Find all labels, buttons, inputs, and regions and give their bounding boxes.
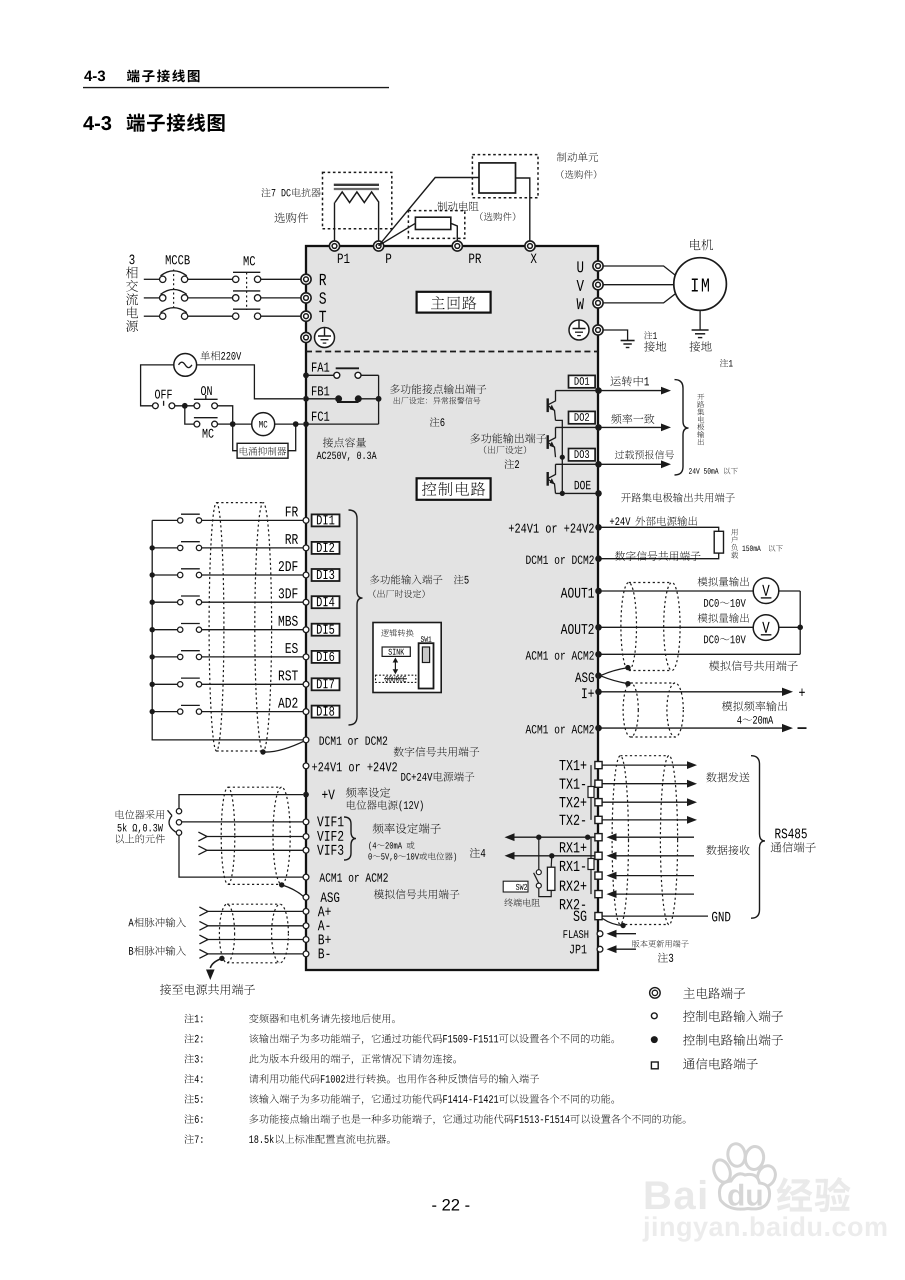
wire switch to DI4: [202, 601, 303, 603]
wire DO1 output: [556, 387, 602, 394]
terminal P: [374, 241, 392, 263]
terminal DI1: [303, 514, 339, 526]
label （选购件） braking resistor: [480, 212, 515, 221]
wire branch to MC aux contact: [185, 406, 194, 424]
wire source left to OFF: [141, 365, 174, 406]
label 用户负载 vertical: [731, 529, 738, 559]
terminal DI8: [303, 706, 339, 718]
wire +24V to load resistor: [602, 527, 719, 531]
wire reactor to P1: [334, 203, 336, 242]
label RS485: [775, 828, 806, 838]
transistor Q1: [548, 391, 556, 421]
label 3相交流电源 vertical: [126, 255, 138, 332]
relay contact FA1 NO: [306, 368, 379, 378]
wire switch to DI8: [202, 711, 303, 713]
label 数据发送: [706, 772, 749, 782]
label 5kΩ,0.3W: [118, 823, 163, 833]
VIF shield drain to ASG: [279, 882, 304, 896]
label 注7 DC电抗器: [261, 188, 320, 197]
terminal VIF1: [182, 817, 344, 827]
MC contact pole 3: [233, 309, 261, 319]
wire bus to switch RST: [152, 683, 177, 685]
switch ES: [178, 651, 202, 660]
wire voltmeter V1 to common bus: [779, 591, 801, 654]
label control circuit 控制电路: [417, 478, 491, 500]
wire +V to potentiometer: [179, 795, 303, 809]
junction node bus DI3: [150, 572, 155, 577]
terminal RX2+: [560, 872, 602, 891]
arrow DO3 overload warning: [601, 450, 674, 468]
label 多功能接点输出端子: [390, 384, 486, 394]
wire bus to switch 2DF: [152, 574, 177, 576]
wire ON to node: [218, 406, 233, 424]
note 注7: [184, 1134, 389, 1143]
junction node after OFF: [182, 403, 188, 409]
DO1 terminal box: [569, 375, 596, 387]
arrow SINK SOURCE double: [393, 658, 399, 675]
label （选购件） braking unit: [561, 170, 596, 179]
legend symbol control input terminal: [651, 1013, 657, 1019]
terminating resistor: [547, 856, 555, 891]
wire node to coil: [233, 423, 252, 425]
label 注1 motor ground: [720, 359, 733, 367]
label signal RST: [279, 670, 298, 680]
RX1+ internal line with arrow: [505, 833, 595, 841]
label 4～20mA: [737, 716, 773, 724]
label 制动单元: [557, 152, 598, 162]
terminal PR: [452, 241, 481, 263]
arrow TX2+ data send: [603, 798, 698, 806]
wire reactor to P: [378, 203, 380, 242]
label 出厂设定：异常报警信号: [394, 397, 481, 404]
braking resistor body: [415, 217, 450, 229]
wire bus to switch RR: [152, 547, 177, 549]
shielded cable pulse inputs: [219, 904, 288, 963]
note 注1: [184, 1014, 394, 1023]
transistor Q3: [548, 464, 556, 493]
label 注6: [430, 417, 445, 427]
wire bus to switch MBS: [152, 629, 177, 631]
legend label 主电路端子: [683, 987, 745, 998]
shielded cable I+: [623, 683, 683, 737]
SOURCE dotted box: [376, 675, 416, 682]
switch RR: [178, 542, 202, 551]
arrow DO2 frequency agree: [601, 414, 671, 432]
terminal T: [301, 311, 326, 322]
brace frequency setting terminals: [344, 817, 356, 860]
wire bus to switch 3DF: [152, 601, 177, 603]
terminal RX1-: [560, 852, 602, 871]
terminal JP1: [570, 945, 603, 954]
label +24V 外部电源输出: [610, 516, 697, 526]
header rule: [83, 87, 389, 89]
wire bus to switch FR: [152, 519, 177, 521]
terminal DI5: [303, 624, 339, 636]
legend label 控制电路输出端子: [683, 1034, 783, 1046]
terminal PE right: [593, 325, 603, 335]
label 多功能输入端子 注5: [370, 575, 469, 585]
RS485 shield drain from SG: [603, 919, 626, 929]
watermark du text: [728, 1184, 761, 1206]
label 数据接收: [706, 845, 749, 855]
switch AD2: [178, 705, 202, 714]
wire switch to DI6: [202, 656, 303, 658]
label main circuit 主回路: [417, 292, 491, 313]
wire braking unit to X: [516, 178, 530, 242]
transistor Q2: [548, 427, 556, 457]
arrow DO1 running signal: [601, 376, 671, 395]
switch 3DF: [178, 596, 202, 605]
label 注4: [470, 848, 486, 858]
terminal FA1: [303, 363, 329, 379]
SW2 terminating switch: [534, 837, 552, 896]
pulse shield to power common arrow: [206, 956, 225, 980]
arrow RX1- data receive: [607, 852, 695, 860]
wire P to braking unit: [379, 178, 479, 246]
label DC+24V电源端子: [401, 772, 474, 782]
terminal P1: [329, 241, 349, 263]
junction node bus DI5: [150, 627, 155, 632]
terminal A+: [199, 906, 330, 916]
braking unit box: [479, 163, 516, 193]
reactor L1 winding: [335, 192, 379, 203]
terminal B-: [199, 949, 329, 959]
label 终端电阻: [504, 898, 539, 906]
label 注2: [504, 459, 519, 469]
terminal FC1: [303, 412, 329, 427]
RX internal bus: [588, 837, 594, 894]
terminal TX2+: [559, 797, 602, 807]
arrow TX1- data send: [603, 780, 698, 788]
junction node bus DI4: [150, 600, 155, 605]
label 多功能输出端子: [470, 433, 546, 443]
label 模拟量输出 1: [698, 577, 749, 587]
label signal MBS: [279, 616, 298, 626]
terminal DCM right: [526, 555, 602, 564]
label 接地 motor: [689, 341, 711, 352]
label signal AD2: [278, 698, 297, 708]
terminal DCM1: [303, 736, 387, 745]
wire phase T input: [144, 315, 301, 317]
DC reactor option dotted box: [323, 172, 392, 228]
junction node MC coil left: [218, 421, 236, 427]
wire voltmeter V2 to common bus: [779, 625, 804, 631]
SW1 slide switch: [419, 643, 434, 688]
page heading 4-3 端子接线图: [83, 113, 224, 131]
arrow I+ output: [602, 688, 805, 696]
wire motor to ground: [699, 310, 701, 329]
page number: [432, 1199, 469, 1211]
label （出厂时设定）: [373, 590, 424, 598]
legend label 通信电路端子: [683, 1058, 758, 1070]
relay common bus wire: [306, 375, 379, 424]
digital input common bus wire: [152, 520, 303, 740]
terminal U: [577, 261, 603, 272]
wire switch to DI1: [202, 519, 303, 521]
wire node to suppressor: [233, 424, 237, 451]
brace multifunction inputs: [349, 510, 363, 725]
main/control circuit separator dashed line: [306, 351, 598, 353]
label 模拟信号共用端子 right: [709, 661, 798, 671]
inverter main block: [306, 246, 598, 970]
arrow TX2- data send: [603, 816, 698, 824]
terminal +24V1: [303, 762, 397, 771]
terminal RX2-: [560, 891, 602, 910]
label 数字信号共用端子 right: [615, 551, 701, 561]
terminal FLASH: [564, 930, 603, 938]
label signal 2DF: [279, 561, 298, 571]
AC source 单相220V: [174, 354, 197, 377]
MC contact pole 2: [233, 291, 261, 301]
emitter common bus: [556, 420, 565, 496]
MC contact pole 1: [233, 272, 261, 282]
wire W to motor: [603, 293, 677, 303]
label signal ES: [286, 643, 298, 653]
braking resistor option dotted box: [408, 211, 464, 239]
terminal DI6: [303, 651, 339, 663]
terminal S: [301, 292, 326, 304]
label 接地 left: [644, 341, 666, 352]
arrow JP1: [607, 945, 637, 953]
watermark paw: [711, 1143, 779, 1210]
label 单相220V: [200, 351, 241, 360]
wire DO3 output: [556, 461, 602, 468]
label 开路集电极输出 vertical: [697, 394, 704, 445]
SW2 label box: [503, 881, 528, 892]
terminal AOUT2: [561, 624, 602, 634]
label signal FR: [286, 507, 298, 517]
DO2 terminal box: [569, 411, 596, 423]
terminal RX1+: [560, 834, 602, 853]
label 接点容量: [323, 437, 366, 447]
braking unit option dotted box: [472, 155, 538, 198]
label open collector common 开路集电极输出共用端子: [621, 493, 735, 503]
label 24V 50mA 以下: [689, 468, 738, 475]
watermark 经验: [777, 1177, 851, 1212]
MCCB pole 2: [160, 289, 188, 301]
MC auxiliary contact: [194, 418, 218, 438]
ground symbol in block left: [315, 328, 335, 348]
wire bus to switch AD2: [152, 711, 177, 713]
ground symbol in block right: [569, 320, 589, 340]
label 0～5V,0～10V或电位器): [368, 852, 456, 861]
MCCB pole 3: [160, 308, 188, 320]
label 注3: [658, 953, 673, 963]
page header small title: [84, 69, 199, 82]
junction node bus DI7: [150, 682, 155, 687]
SW1 logic selector box: [373, 623, 441, 693]
switch MBS: [178, 624, 202, 633]
terminal +24V right: [509, 524, 602, 533]
shield drain to DCM1: [260, 740, 306, 755]
ASG to I+ shield drain: [602, 676, 631, 686]
potentiometer: [168, 809, 182, 836]
terminal AOUT1: [561, 588, 602, 598]
arrow RX2+ data receive: [607, 872, 695, 880]
junction node bus DI6: [150, 654, 155, 659]
switch FR: [178, 514, 202, 523]
label 电位器采用: [116, 810, 165, 819]
label 逻辑转换: [381, 629, 413, 637]
terminal A-: [199, 920, 329, 930]
label B相脉冲输入: [129, 946, 186, 956]
TX internal bus: [588, 765, 594, 820]
brace open collector outputs: [675, 380, 689, 475]
MC linkage dotted line: [246, 273, 248, 311]
label MC contactor: [244, 256, 255, 265]
wire pot low to ACM1: [179, 836, 303, 878]
DOE terminal: [556, 481, 602, 497]
terminal SG: [573, 911, 602, 921]
wire bus to switch ES: [152, 656, 177, 658]
wire load resistor to DCM: [602, 553, 719, 559]
label 版本更新用端子: [632, 940, 689, 948]
terminal R: [301, 274, 326, 285]
MC coil: [252, 413, 275, 436]
terminal X: [525, 241, 537, 263]
wire switch to DI3: [202, 574, 303, 576]
label A相脉冲输入: [128, 917, 186, 927]
wire AOUT1 to voltmeter: [602, 590, 754, 592]
wire switch to DI2: [202, 547, 303, 549]
terminal I+: [582, 688, 602, 698]
label SW1: [421, 636, 432, 642]
voltmeter V2: [753, 615, 779, 641]
terminal V: [577, 280, 604, 291]
AOUT shield drain to ASG: [602, 665, 631, 675]
wire braking resistor to PR: [451, 223, 458, 241]
terminal ACM2 bottom: [526, 725, 602, 734]
terminal FB1: [303, 386, 329, 401]
note 注4: [184, 1074, 538, 1083]
legend label 控制电路输入端子: [683, 1010, 783, 1022]
terminal B+: [199, 935, 330, 945]
note 注3: [184, 1054, 456, 1064]
motor ground symbol: [692, 330, 709, 338]
label (4～20mA 或: [369, 841, 414, 850]
label signal RR: [286, 534, 298, 544]
surge suppressor 电涌抑制器: [237, 443, 288, 458]
label 以上的元件: [116, 834, 165, 843]
label 模拟量输出 2: [698, 613, 749, 623]
pushbutton OFF: [153, 390, 175, 409]
arrow RX2- data receive: [607, 890, 695, 898]
watermark jingyan url: [643, 1216, 887, 1241]
brace RS485 terminals: [751, 756, 765, 919]
junction node bus DI8: [150, 709, 155, 714]
MCCB pole 1: [160, 271, 188, 283]
label 150mA 以下: [742, 545, 782, 552]
wire SG to GND: [603, 915, 709, 917]
arrow RX1+ data receive: [607, 833, 695, 841]
switch RST: [178, 678, 202, 687]
label 频率设定: [346, 787, 390, 798]
arrow TX1+ data send: [603, 761, 698, 769]
wire P to braking resistor: [379, 223, 416, 245]
wire V to motor: [603, 284, 674, 286]
watermark Baidu logo text: [646, 1180, 706, 1209]
load resistor 用户负载: [714, 531, 723, 553]
label 频率设定端子: [373, 823, 441, 834]
legend symbol control output terminal: [651, 1036, 658, 1043]
terminal W: [577, 298, 604, 309]
terminal +V: [303, 790, 335, 800]
MCCB linkage dotted line: [173, 270, 175, 309]
note 注6: [184, 1114, 685, 1125]
RX1- internal line with arrow: [505, 852, 595, 860]
shielded cable digital inputs: [209, 503, 272, 751]
wire ACM common: [602, 653, 801, 655]
arrow ACM2 output: [602, 724, 807, 732]
wire coil to FC1: [275, 421, 303, 427]
terminal TX2-: [559, 815, 602, 825]
wire switch to DI5: [202, 629, 303, 631]
pushbutton ON: [194, 386, 218, 409]
arrow FLASH: [607, 930, 637, 938]
label 注1 left ground: [644, 331, 657, 339]
label AC250V 0.3A: [317, 452, 377, 461]
wire AOUT2 to voltmeter: [602, 626, 754, 628]
shielded cable RS485: [612, 756, 678, 925]
label 通信端子: [771, 842, 816, 853]
terminal DI4: [303, 596, 339, 608]
terminal DI7: [303, 678, 339, 690]
terminal TX1+: [559, 760, 602, 770]
label GND: [712, 912, 730, 922]
terminal TX1-: [559, 779, 602, 789]
wire source right to FB1: [197, 365, 303, 399]
legend symbol communication terminal: [651, 1062, 658, 1069]
label signal 3DF: [279, 588, 298, 598]
label 选购件: [274, 212, 308, 222]
label 电机: [690, 239, 713, 250]
label 模拟信号共用端子 left: [374, 889, 460, 899]
terminal PE left: [301, 332, 311, 342]
wire DO2 output: [556, 424, 602, 431]
wire suppressor to FC1 node: [288, 424, 296, 451]
terminal ASG: [303, 892, 339, 902]
terminal DI2: [303, 542, 339, 554]
label （出厂设定）: [484, 446, 526, 454]
shielded cable AOUT: [621, 583, 680, 671]
relay contact FB1 NC: [306, 395, 382, 402]
reactor L1 core bars: [334, 185, 379, 189]
label MCCB: [166, 255, 190, 264]
note 注5: [184, 1094, 614, 1105]
label DC0～10V lower: [704, 635, 746, 643]
note 注2: [184, 1034, 614, 1045]
wire U to motor: [603, 266, 677, 276]
shielded cable VIF: [221, 787, 290, 884]
terminal VIF3: [198, 845, 343, 855]
label 模拟频率输出: [722, 701, 787, 711]
DO3 terminal box: [569, 449, 596, 461]
wire PE to external ground: [603, 330, 628, 340]
junction node bus DI2: [150, 545, 155, 550]
label 制动电阻: [437, 201, 478, 211]
SINK box: [382, 647, 410, 656]
legend symbol main circuit terminal: [650, 988, 661, 999]
label 数字信号共用端子 left: [394, 747, 480, 757]
terminal ACM1: [303, 873, 388, 882]
motor IM: [674, 258, 727, 311]
label DC0～10V upper: [704, 599, 746, 607]
terminal VIF2: [198, 831, 343, 841]
terminal ACM right: [526, 651, 602, 660]
terminal DI3: [303, 569, 339, 581]
label 接至电源共用端子: [160, 984, 255, 995]
voltmeter V1: [753, 578, 779, 604]
